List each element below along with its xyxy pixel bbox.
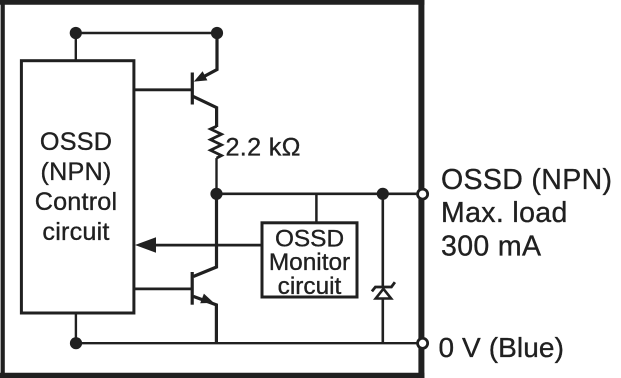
transistor Q2 emitter arrowhead [200,294,214,304]
wire OSSD output line to terminal [217,193,422,196]
svg-text:OSSD: OSSD [40,128,112,156]
svg-text:2.2 kΩ: 2.2 kΩ [226,134,301,162]
node junction dot at zener branch [377,188,389,200]
svg-text:0 V (Blue): 0 V (Blue) [439,332,565,363]
terminal circle OSSD output [418,189,428,199]
svg-text:Max. load: Max. load [441,197,568,229]
label OSSD (NPN) Max. load 300 mA [441,164,612,263]
wire base of transistor Q1 [134,88,192,91]
transistor Q2 emitter wire [193,296,216,343]
outer enclosure border [0,0,424,378]
transistor Q1 emitter arrowhead [194,71,208,81]
wire 0V rail [76,342,421,344]
node junction dot at resistor/collector/output [210,188,222,200]
svg-text:circuit: circuit [42,218,109,246]
wire stub OSSD line to monitor box [315,194,318,223]
monitor box label text [269,225,350,300]
node junction dot left on top rail [70,27,82,39]
node junction dot on 0V rail [70,337,82,349]
OSSD Monitor circuit box [262,223,357,297]
svg-text:OSSD (NPN): OSSD (NPN) [441,164,612,196]
zener diode D1 cathode bar [372,282,395,291]
wire top rail V+ [76,32,217,34]
arrowhead feedback into control box [135,237,156,252]
transistor Q1 emitter wire [198,33,217,80]
terminal circle 0V [418,338,428,348]
transistor Q1 PNP base bar [191,73,194,105]
svg-text:(NPN): (NPN) [41,158,112,186]
transistor Q2 NPN base bar [191,272,194,305]
wire monitor feedback to control box [152,244,262,247]
OSSD (NPN) Control circuit box [21,61,133,313]
wire zener branch upper [381,194,384,287]
svg-text:circuit: circuit [278,273,342,300]
svg-text:Control: Control [35,188,118,216]
svg-text:300 mA: 300 mA [441,231,541,263]
resistor R1 zigzag [211,126,222,158]
node junction dot right on top rail [211,27,223,39]
control box label text [35,128,118,246]
wire zener branch lower [381,298,384,343]
wire stub control box to 0V rail [75,313,77,343]
transistor Q1 collector wire [193,96,217,127]
zener diode D1 triangle [376,289,391,299]
wire base of transistor Q2 [134,287,192,290]
wire stub from top rail to control box [75,33,77,61]
wire resistor to OSSD output node [215,158,217,194]
transistor Q2 collector wire [193,194,216,277]
